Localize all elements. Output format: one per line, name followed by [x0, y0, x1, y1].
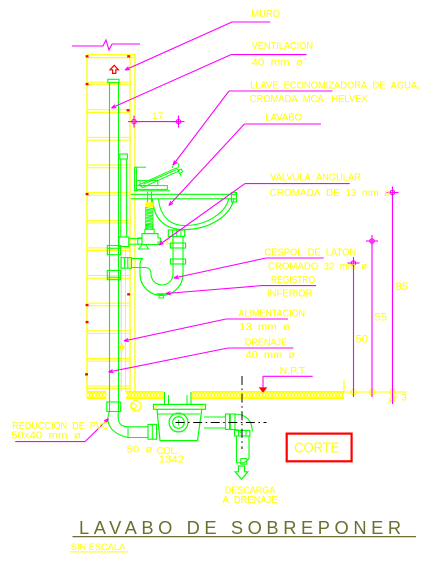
- dim 50 marker: [348, 257, 360, 269]
- label VALVULA line1: [270, 172, 361, 184]
- svg-text:40 mm ø: 40 mm ø: [252, 57, 304, 69]
- svg-text:50: 50: [356, 334, 369, 346]
- drain outer circle: [169, 413, 188, 432]
- faucet shank: [148, 192, 152, 203]
- counter top: [131, 193, 237, 195]
- basin drain flange: [168, 230, 184, 236]
- svg-text:INFERIOR: INFERIOR: [267, 288, 313, 300]
- label SIN ESCALA: [71, 542, 126, 553]
- dim 85 line: [392, 193, 394, 405]
- vent stack cap: [108, 79, 119, 82]
- descarga arrow: [235, 466, 248, 479]
- drain arm escutcheon: [121, 258, 132, 269]
- svg-text:LLAVE ECONOMIZADORA DE AGUA: LLAVE ECONOMIZADORA DE AGUA,: [250, 80, 420, 92]
- label CESPOL line1: [265, 246, 357, 258]
- svg-text:MURO: MURO: [251, 8, 280, 20]
- leader LLAVE: [173, 91, 332, 165]
- svg-text:CROMADO 32 mm ø: CROMADO 32 mm ø: [268, 260, 368, 272]
- floor end tick: [338, 380, 344, 392]
- trap U inner: [151, 274, 173, 285]
- red vent arrow: [110, 65, 118, 73]
- svg-text:CROMADA DE 13 mm ø: CROMADA DE 13 mm ø: [270, 187, 391, 199]
- yellow corner tick left: [155, 405, 159, 409]
- trap U outer: [140, 274, 183, 296]
- label DESCARGA: [225, 485, 276, 496]
- label CORTE: [294, 439, 339, 456]
- title underline: [73, 536, 417, 538]
- dim 85 text: [396, 281, 409, 293]
- svg-text:50x40 mm ø: 50x40 mm ø: [11, 429, 81, 441]
- tailpiece: [173, 236, 183, 274]
- label REDUCCION: [12, 420, 109, 432]
- svg-text:40 mm ø: 40 mm ø: [246, 349, 296, 361]
- supply arm to valve: [129, 239, 142, 245]
- stack coupling upper: [107, 246, 120, 255]
- svg-text:N.P.T.: N.P.T.: [280, 365, 307, 377]
- svg-text:13 mm ø: 13 mm ø: [239, 321, 290, 333]
- right run rings: [226, 414, 236, 430]
- faucet base: [137, 181, 157, 186]
- basin inner: [159, 199, 229, 226]
- floor hatch band: [87, 391, 345, 398]
- valve top nuts: [145, 225, 154, 234]
- wall inner line: [129, 54, 131, 392]
- trap arm bottom: [132, 268, 152, 275]
- floor dim baseline: [344, 391, 407, 393]
- floor drain body: [157, 409, 202, 440]
- svg-text:ALIMENTACION: ALIMENTACION: [239, 308, 306, 320]
- label LLAVE line2: [250, 93, 368, 105]
- supply nut yellow: [145, 202, 153, 207]
- label A DRENAJE: [223, 495, 278, 506]
- yellow fitting marker: [119, 344, 125, 351]
- label LLAVE line1: [250, 80, 420, 92]
- wall top band: [87, 55, 135, 58]
- floor drain riser: [165, 392, 192, 404]
- dim 55 text: [375, 312, 388, 324]
- wall hatch rungs: [87, 82, 130, 389]
- elbow nut band: [235, 430, 250, 436]
- dim 50 text: [356, 334, 369, 346]
- leader NPT: [263, 376, 313, 388]
- svg-text:LAVABO: LAVABO: [265, 112, 302, 124]
- label INFERIOR: [267, 288, 313, 300]
- angle valve body: [142, 234, 160, 245]
- wall finish line: [134, 54, 136, 392]
- yellow corner tick right: [200, 405, 204, 409]
- svg-text:A DRENAJE: A DRENAJE: [223, 495, 278, 506]
- label 50x40: [11, 429, 81, 441]
- leader ALIMENTACION: [124, 319, 288, 342]
- label 40 mm dia: [252, 57, 304, 69]
- drop pipe: [237, 436, 250, 463]
- supply tee fitting: [119, 237, 129, 247]
- trap arm top: [132, 259, 144, 275]
- svg-text:LAVABO DE SOBREPONER: LAVABO DE SOBREPONER: [79, 518, 406, 538]
- leader VENTILACION: [112, 55, 307, 108]
- counter right end: [231, 192, 236, 202]
- basin outer: [153, 199, 234, 230]
- valve handle: [139, 245, 149, 249]
- leader MURO: [125, 22, 270, 70]
- right run pipe: [204, 417, 226, 428]
- CORTE box: [287, 434, 352, 462]
- supply riser lower (finish lines): [122, 247, 126, 392]
- SIN ESCALA underline: [70, 551, 128, 553]
- supply riser pipe: [121, 159, 127, 237]
- svg-text:50 ø: 50 ø: [127, 443, 154, 455]
- stack elbow below floor: [108, 412, 128, 438]
- centerline vertical: [241, 376, 243, 449]
- stack coupling below floor: [107, 402, 121, 412]
- left run flange: [148, 424, 157, 439]
- floor drain flange: [154, 404, 206, 409]
- dim 85 marker: [387, 187, 399, 199]
- svg-text:3: 3: [402, 393, 407, 404]
- label 50 dia drain: [127, 443, 154, 455]
- wall top break line (magenta): [72, 40, 140, 50]
- dim 50 line: [353, 263, 355, 397]
- dim 17 right marker: [173, 116, 185, 128]
- svg-text:CORTE: CORTE: [294, 439, 339, 456]
- tailpiece nut 2: [170, 259, 185, 264]
- drain nut yellow: [167, 239, 172, 244]
- red tick marks on wall: [85, 55, 130, 375]
- drop pipe foot: [241, 459, 247, 465]
- svg-text:SIN ESCALA: SIN ESCALA: [71, 542, 126, 553]
- label REGISTRO: [271, 274, 315, 286]
- label DRENAJE: [245, 336, 288, 348]
- svg-text:55: 55: [375, 312, 388, 324]
- faucet aerator: [178, 169, 183, 176]
- svg-text:CROMADA MCA. HELVEX: CROMADA MCA. HELVEX: [250, 93, 368, 105]
- valve stem left: [138, 238, 142, 244]
- leader REDUCCION: [15, 419, 108, 442]
- title text: [79, 518, 406, 538]
- drain cross: [176, 420, 182, 426]
- left run pipe: [128, 427, 148, 438]
- trap cleanout plug: [157, 294, 167, 298]
- drain inner circle: [173, 417, 185, 429]
- label 40 mm dia 2: [246, 349, 296, 361]
- dim 17 text: [152, 111, 164, 121]
- NPT red triangle: [259, 387, 268, 392]
- svg-text:17: 17: [152, 111, 164, 121]
- svg-text:1342: 1342: [159, 454, 184, 466]
- label NPT: [280, 365, 307, 377]
- yellow plug circle: [131, 401, 141, 411]
- faucet handle: [172, 163, 179, 168]
- right elbow: [235, 414, 252, 433]
- stack coupling lower: [107, 271, 120, 280]
- dim 55 marker: [366, 235, 378, 247]
- label ALIMENTACION: [239, 308, 306, 320]
- floor dim circle markers: [351, 389, 396, 402]
- label CESPOL line2: [268, 260, 368, 272]
- dim 17 line: [134, 121, 179, 123]
- svg-text:VALVULA ANGULAR: VALVULA ANGULAR: [270, 172, 361, 184]
- svg-text:REGISTRO: REGISTRO: [271, 274, 315, 286]
- faucet spout: [139, 168, 179, 188]
- supply riser cap: [120, 154, 128, 159]
- label LAVABO: [265, 112, 302, 124]
- label VALVULA line2: [270, 187, 391, 199]
- svg-text:85: 85: [396, 281, 409, 293]
- label MURO: [251, 8, 280, 20]
- faucet wall plate: [135, 167, 146, 191]
- centerline horizontal: [176, 422, 267, 424]
- label VENTILACION: [252, 40, 313, 52]
- faucet base plate: [136, 186, 167, 190]
- leader REGISTRO: [166, 286, 316, 295]
- corrugated supply hose: [146, 208, 153, 230]
- leader VALVULA: [159, 184, 350, 245]
- wall left line: [86, 54, 88, 392]
- counter bottom: [131, 198, 237, 200]
- leader LAVABO: [169, 124, 321, 206]
- label 1342: [159, 454, 184, 466]
- vent stack pipe: [110, 83, 119, 412]
- svg-text:CESPOL DE LATON: CESPOL DE LATON: [265, 246, 357, 258]
- leader DRENAJE: [109, 348, 294, 373]
- dim 55 line: [371, 241, 373, 397]
- dim 17 left marker: [128, 116, 140, 128]
- slash tick: [388, 396, 397, 404]
- label COL.: [157, 445, 179, 457]
- counter deck line: [134, 190, 170, 192]
- label 13 mm dia: [239, 321, 290, 333]
- svg-text:VENTILACION: VENTILACION: [252, 40, 313, 52]
- svg-text:DRENAJE: DRENAJE: [245, 336, 288, 348]
- leader CESPOL: [174, 258, 324, 279]
- label 3: [402, 393, 407, 404]
- tailpiece nut 1: [170, 243, 185, 248]
